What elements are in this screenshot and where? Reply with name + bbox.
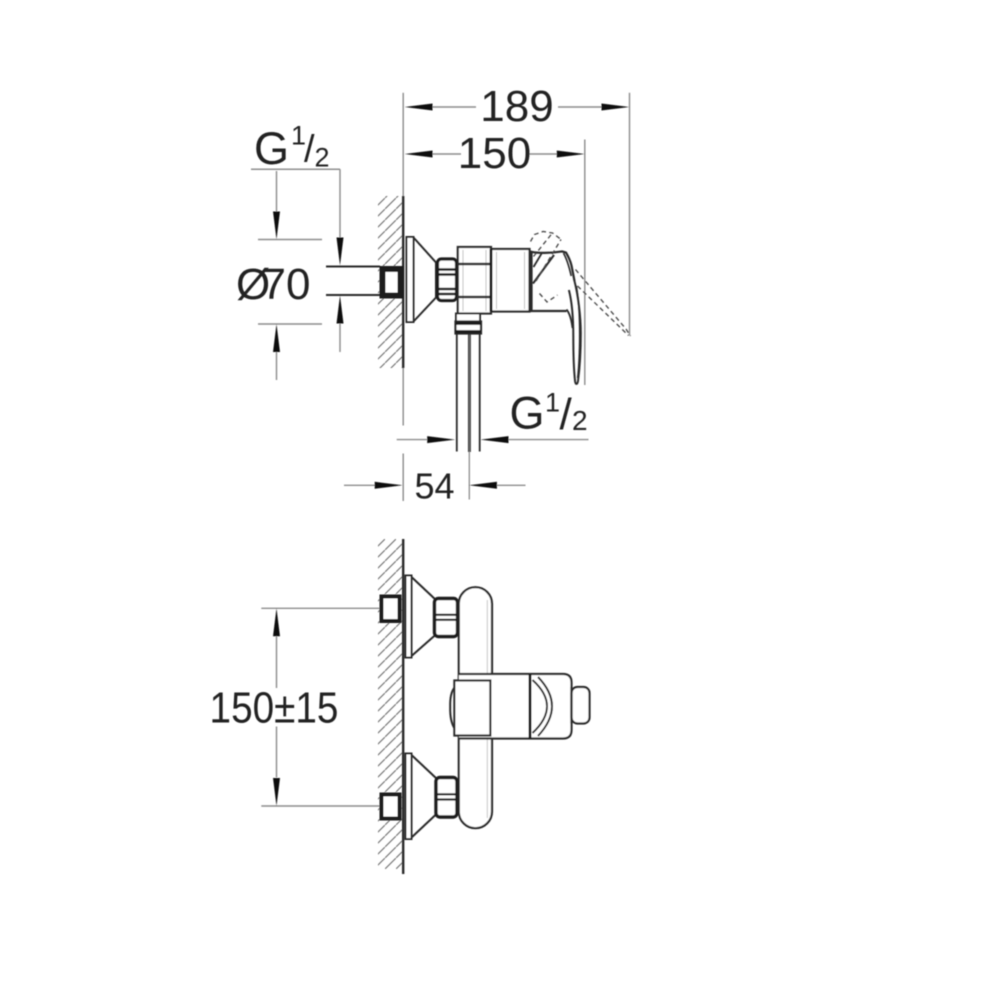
svg-text:/: / [304, 129, 315, 171]
svg-text:54: 54 [414, 466, 454, 507]
svg-text:150±15: 150±15 [210, 682, 339, 732]
svg-text:1: 1 [545, 388, 560, 418]
svg-text:/: / [560, 390, 573, 439]
svg-text:G: G [510, 388, 545, 439]
svg-text:70: 70 [262, 260, 311, 309]
svg-text:2: 2 [572, 405, 588, 436]
svg-text:G: G [254, 123, 289, 174]
svg-text:150: 150 [458, 129, 531, 178]
svg-text:2: 2 [315, 143, 330, 173]
svg-text:189: 189 [480, 82, 553, 131]
